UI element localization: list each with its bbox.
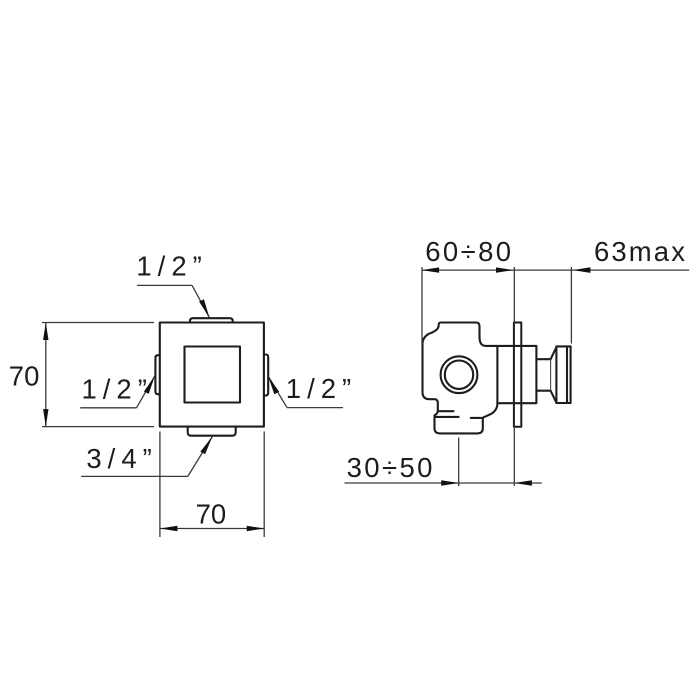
side view: cartridge neck top — [537, 358, 551, 360]
arrow: left 70 bottom — [43, 409, 48, 427]
front view: inner square opening — [185, 347, 241, 403]
side view: cone base edge — [550, 359, 552, 391]
svg-text:1/2”: 1/2” — [286, 373, 357, 404]
arrow: 30-50 left — [441, 480, 459, 485]
svg-text:60÷80: 60÷80 — [425, 236, 513, 267]
arrow: bottom 70 left — [160, 526, 178, 531]
leader: top 1/2 diagonal — [192, 285, 209, 317]
front view: top port bump 1/2" — [190, 318, 233, 322]
front view: left port bump 1/2" — [155, 355, 159, 394]
svg-text:3/4”: 3/4” — [86, 443, 157, 474]
side view: cartridge neck bottom — [537, 390, 551, 392]
dim line: 60-80 and 63max horizontal — [422, 269, 690, 271]
side view: cone flare bottom — [551, 391, 557, 403]
arrow: 63max — [573, 267, 591, 273]
dim line: left 70 vertical — [45, 323, 47, 427]
dimension texts — [9, 236, 687, 529]
front view: bottom port bump 3/4" — [188, 427, 236, 436]
svg-text:30÷50: 30÷50 — [347, 452, 435, 483]
neck base edge (light) — [550, 359, 552, 391]
side view: body right face edge — [496, 347, 498, 403]
leader: right 1/2 underline — [287, 407, 343, 409]
dim line: 30-50 horizontal — [345, 482, 542, 484]
side view — [423, 323, 571, 434]
svg-text:1/2”: 1/2” — [82, 374, 153, 405]
leader: pipe centerline — [458, 438, 460, 487]
side view: port circle outer — [441, 356, 478, 393]
leader: right 1/2 diagonal — [268, 376, 287, 408]
svg-text:63max: 63max — [594, 236, 687, 267]
side view: stem end cap inner line — [566, 346, 568, 403]
arrow: 30-50 right — [514, 480, 532, 485]
side view: cone flare top — [551, 347, 557, 359]
side view: port circle inner — [445, 361, 473, 389]
arrow: left 70 top — [43, 323, 48, 341]
side view: outlet pipe top edge right segment — [471, 417, 481, 419]
arrow: 3/4 leader — [200, 437, 212, 455]
ext line: stem end — [570, 267, 572, 344]
dim line: bottom 70 horizontal — [160, 528, 264, 530]
front view: outer square plate 70x70 — [160, 323, 264, 427]
svg-text:1/2”: 1/2” — [136, 251, 207, 282]
leader: left 1/2 underline — [80, 407, 136, 409]
side view: outlet pipe top edge left segment — [435, 416, 459, 418]
side view: wall flange plate — [514, 323, 521, 427]
leader: 3/4 underline — [81, 475, 188, 477]
arrow: right 1/2 leader — [268, 376, 279, 394]
arrow: 60-80 left — [422, 267, 440, 272]
arrow: left 1/2 leader — [144, 376, 155, 394]
front view: right port bump 1/2" — [264, 355, 268, 396]
ext line: wall plane lower — [513, 427, 515, 486]
arrow: top 1/2 leader — [199, 299, 209, 317]
ext line: wall plane — [513, 267, 515, 323]
ext line: bottom 70 right — [263, 432, 265, 538]
leader: top 1/2 underline — [137, 284, 192, 286]
svg-text:70: 70 — [9, 361, 40, 392]
ext line: front top (70) — [42, 322, 154, 324]
svg-text:70: 70 — [196, 498, 227, 529]
side view: body bottom internal edge — [439, 410, 453, 412]
arrow: bottom 70 right — [247, 526, 265, 531]
ext line: side body left face — [421, 267, 423, 344]
leader: left 1/2 diagonal — [137, 376, 155, 408]
arrowheads — [43, 267, 590, 531]
side view: valve body outline — [423, 323, 537, 434]
ext line: bottom 70 left — [159, 432, 161, 538]
leader: 3/4 diagonal — [188, 437, 213, 477]
arrow: 60-80 right — [496, 267, 514, 272]
side view: stem end cap — [556, 346, 570, 403]
ext line: front bottom (70) — [42, 426, 154, 428]
thin dimension and extension lines — [42, 267, 689, 537]
